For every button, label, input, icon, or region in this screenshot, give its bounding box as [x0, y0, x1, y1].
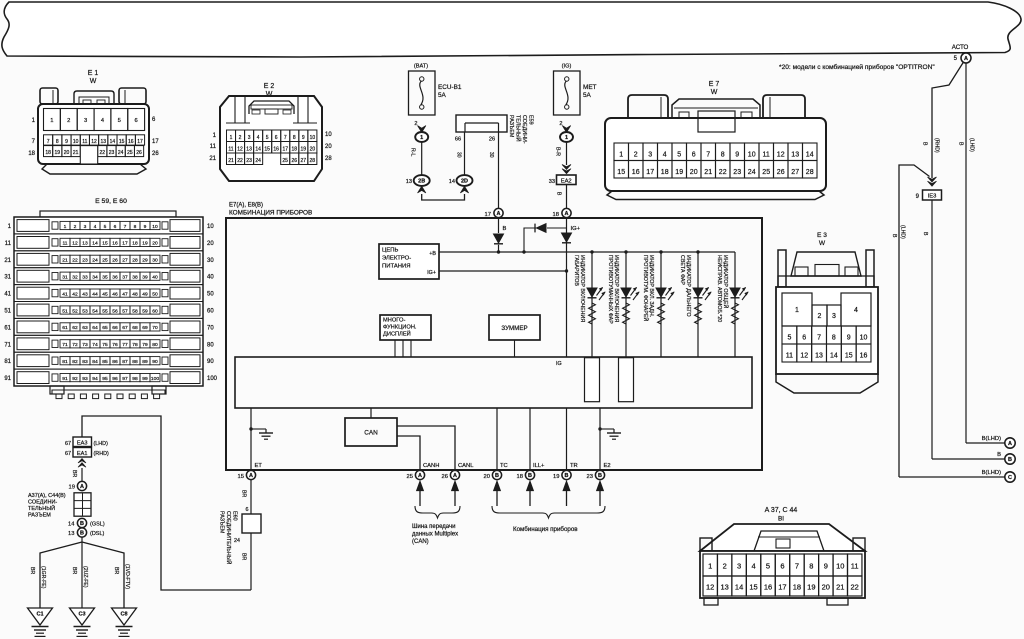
svg-text:20: 20: [325, 144, 332, 150]
connector A37 pins: [703, 554, 717, 576]
svg-text:2: 2: [74, 224, 77, 230]
svg-text:5A: 5A: [438, 92, 447, 99]
svg-text:20: 20: [152, 241, 158, 247]
arrows into EA3: [78, 459, 86, 464]
connector E59 bottom tabs: [50, 386, 64, 394]
svg-text:СВЕТА ФАР: СВЕТА ФАР: [679, 255, 685, 285]
svg-text:IE3: IE3: [928, 194, 937, 200]
svg-text:7: 7: [706, 152, 710, 159]
terminal circle A top: [961, 53, 971, 63]
svg-text:98: 98: [132, 376, 138, 382]
svg-text:C3: C3: [78, 612, 85, 618]
svg-text:17: 17: [282, 146, 288, 152]
svg-text:1: 1: [50, 118, 53, 124]
svg-text:17: 17: [122, 241, 128, 247]
svg-text:C8: C8: [120, 612, 127, 618]
svg-text:1: 1: [64, 224, 67, 230]
wire BR to joint: [81, 468, 83, 481]
svg-text:КОМБИНАЦИЯ ПРИБОРОВ: КОМБИНАЦИЯ ПРИБОРОВ: [229, 210, 312, 217]
svg-text:8: 8: [721, 152, 725, 159]
svg-text:R-L: R-L: [410, 148, 416, 156]
svg-text:27: 27: [300, 158, 306, 164]
fuse MET 5A: [554, 71, 581, 115]
combination meter box: [226, 218, 762, 470]
svg-text:25: 25: [102, 258, 108, 264]
arrows below CAN terminals: [416, 481, 423, 491]
svg-text:15: 15: [264, 146, 270, 152]
indicator LED column 1: [591, 252, 593, 357]
svg-text:61: 61: [4, 325, 11, 331]
svg-text:14: 14: [68, 522, 75, 528]
svg-text:68: 68: [132, 325, 138, 331]
svg-text:B(LHD): B(LHD): [982, 470, 1001, 476]
connector E1 pin row 1: [44, 109, 61, 131]
svg-text:B: B: [922, 232, 928, 236]
svg-text:74: 74: [92, 342, 98, 348]
svg-text:3: 3: [84, 224, 87, 230]
svg-text:ДИСПЛЕЙ: ДИСПЛЕЙ: [383, 330, 411, 338]
svg-text:6: 6: [135, 118, 138, 124]
svg-text:70: 70: [152, 325, 158, 331]
wire TR: [566, 408, 568, 470]
svg-text:12: 12: [706, 583, 714, 592]
svg-text:13: 13: [406, 179, 412, 185]
svg-text:21: 21: [228, 158, 234, 164]
svg-text:3: 3: [832, 313, 836, 320]
svg-text:13: 13: [246, 146, 252, 152]
svg-text:80: 80: [207, 342, 214, 348]
connector E2 pin row 2: [227, 142, 236, 154]
svg-text:BI: BI: [778, 516, 784, 523]
svg-text:3: 3: [737, 562, 741, 571]
svg-text:57: 57: [122, 308, 128, 314]
svg-text:12: 12: [800, 353, 808, 360]
svg-text:11: 11: [763, 152, 770, 159]
connector E59 shell: [14, 217, 203, 386]
arrow into connector 1: [418, 126, 426, 133]
diode on IG: [562, 233, 572, 242]
multi display box: [380, 315, 431, 340]
svg-text:11: 11: [62, 241, 67, 247]
torn page band across top: [2, 2, 1021, 57]
svg-text:20: 20: [822, 583, 830, 592]
svg-text:20: 20: [310, 146, 316, 152]
svg-text:10: 10: [152, 224, 158, 230]
svg-text:+B: +B: [429, 251, 436, 257]
svg-text:E 2: E 2: [264, 83, 275, 90]
svg-text:A: A: [418, 473, 422, 479]
svg-text:C: C: [1008, 475, 1012, 481]
connector E1 right ear: [119, 88, 146, 104]
svg-text:42: 42: [72, 291, 78, 297]
indicator LED column 4: [697, 252, 699, 357]
connector oval 2D: [457, 175, 473, 186]
svg-text:ИНДИКАТОР ОБЩЕЙ: ИНДИКАТОР ОБЩЕЙ: [722, 255, 730, 308]
svg-text:B: B: [922, 142, 928, 146]
joint connector E59 box: [456, 115, 507, 132]
connector E1 pin row 3: [44, 146, 53, 157]
indicator LED column 3: [660, 252, 662, 357]
svg-text:95: 95: [102, 376, 108, 382]
svg-text:5A: 5A: [583, 92, 592, 99]
svg-text:MET: MET: [583, 84, 597, 91]
svg-text:99: 99: [142, 376, 148, 382]
svg-text:B: B: [958, 142, 964, 146]
svg-text:14: 14: [255, 146, 261, 152]
svg-text:7: 7: [284, 135, 287, 141]
svg-text:41: 41: [62, 291, 68, 297]
svg-text:17: 17: [152, 139, 159, 145]
svg-text:27: 27: [122, 258, 128, 264]
svg-text:A 37, C 44: A 37, C 44: [765, 507, 798, 514]
svg-text:30: 30: [488, 152, 494, 158]
svg-text:A: A: [453, 473, 457, 479]
svg-text:7: 7: [47, 139, 50, 145]
wire B below IE3: [931, 200, 933, 459]
svg-text:97: 97: [122, 376, 128, 382]
svg-text:80: 80: [152, 342, 158, 348]
svg-text:96: 96: [112, 376, 118, 382]
svg-text:АСТО: АСТО: [952, 44, 969, 51]
svg-text:19: 19: [55, 150, 61, 156]
svg-text:B: B: [503, 226, 507, 232]
connector A37 shell body: [700, 551, 865, 598]
svg-text:30: 30: [456, 152, 462, 158]
svg-text:24: 24: [92, 258, 98, 264]
svg-text:17: 17: [137, 139, 143, 145]
svg-text:91: 91: [62, 376, 68, 382]
svg-text:7: 7: [795, 562, 799, 571]
svg-text:ПИТАНИЯ: ПИТАНИЯ: [382, 264, 411, 270]
svg-text:E 1: E 1: [88, 70, 99, 77]
svg-text:1: 1: [708, 562, 712, 571]
svg-text:28: 28: [132, 258, 138, 264]
svg-text:НЕИСПРАВ. АВТОМОБ.*20: НЕИСПРАВ. АВТОМОБ.*20: [716, 255, 722, 322]
connector oval 1 MET: [560, 132, 573, 142]
svg-text:13: 13: [82, 241, 88, 247]
svg-text:5: 5: [766, 562, 770, 571]
svg-text:8: 8: [56, 139, 59, 145]
svg-text:4: 4: [94, 224, 97, 230]
svg-text:Е60: Е60: [232, 511, 238, 521]
connector E3 posts: [778, 250, 786, 287]
connector E7 center latch: [672, 99, 760, 118]
svg-text:9: 9: [144, 224, 147, 230]
brace combination meter: [492, 506, 605, 518]
inner unit box: [235, 357, 752, 408]
wire CANH: [397, 436, 420, 470]
svg-text:A: A: [249, 473, 253, 479]
connector E2 shell: [220, 96, 322, 181]
svg-text:B(LHD): B(LHD): [982, 436, 1001, 442]
svg-text:14: 14: [806, 152, 814, 159]
svg-text:CANH: CANH: [423, 463, 439, 469]
svg-text:2: 2: [818, 313, 822, 320]
svg-text:(LHD): (LHD): [94, 441, 109, 447]
connector E2 right ear channel: [293, 122, 317, 124]
svg-text:BR: BR: [71, 567, 77, 574]
svg-text:49: 49: [142, 291, 148, 297]
svg-text:15: 15: [845, 353, 853, 360]
svg-text:23: 23: [82, 258, 88, 264]
svg-text:14: 14: [110, 139, 116, 145]
svg-text:23: 23: [587, 474, 593, 480]
svg-text:2: 2: [559, 121, 562, 127]
svg-text:84: 84: [92, 359, 98, 365]
svg-text:60: 60: [207, 309, 214, 315]
svg-text:15: 15: [119, 139, 125, 145]
svg-text:25: 25: [127, 150, 133, 156]
connector oval 1: [415, 132, 428, 142]
svg-text:32: 32: [72, 275, 78, 281]
svg-text:ЦЕПЬ: ЦЕПЬ: [382, 248, 399, 254]
svg-text:12: 12: [91, 139, 97, 145]
connector E1 shell: [38, 104, 149, 164]
connector E59 top bar: [40, 211, 176, 217]
buzzer box: [489, 315, 540, 340]
svg-text:СОЕДИНИ-: СОЕДИНИ-: [521, 115, 527, 144]
svg-text:24: 24: [748, 169, 756, 176]
svg-text:B: B: [565, 473, 569, 479]
svg-text:33: 33: [549, 179, 555, 185]
svg-text:РАЗЪЕМ: РАЗЪЕМ: [219, 511, 225, 534]
svg-text:27: 27: [791, 169, 799, 176]
arrows below meter terminals: [493, 481, 500, 491]
svg-text:26: 26: [442, 474, 448, 480]
terminal C bottom right: [1005, 472, 1015, 482]
svg-text:16: 16: [764, 583, 772, 592]
svg-text:40: 40: [207, 275, 214, 281]
svg-text:11: 11: [228, 146, 233, 152]
svg-text:СОЕДИНИ-: СОЕДИНИ-: [28, 500, 57, 506]
svg-text:47: 47: [122, 291, 128, 297]
svg-text:26: 26: [112, 258, 118, 264]
svg-text:W: W: [90, 78, 97, 85]
connector E59 rows: [14, 217, 203, 234]
svg-text:52: 52: [72, 308, 78, 314]
svg-text:5: 5: [104, 224, 107, 230]
svg-text:11: 11: [5, 241, 12, 247]
svg-text:81: 81: [4, 359, 11, 365]
svg-text:23: 23: [109, 150, 115, 156]
svg-text:8: 8: [832, 335, 836, 342]
svg-text:89: 89: [142, 359, 148, 365]
svg-text:12: 12: [237, 146, 243, 152]
svg-text:55: 55: [102, 308, 108, 314]
svg-text:1: 1: [420, 135, 423, 141]
svg-text:67: 67: [65, 441, 71, 447]
wire joint E59 to terminal 17: [498, 123, 500, 208]
svg-text:26: 26: [489, 137, 495, 143]
svg-text:(RHD): (RHD): [94, 451, 109, 457]
svg-text:2: 2: [67, 118, 70, 124]
buzzer stub: [514, 340, 516, 357]
svg-text:62: 62: [72, 325, 78, 331]
svg-text:EA1: EA1: [77, 451, 88, 457]
svg-text:18: 18: [28, 151, 35, 157]
svg-text:21: 21: [73, 150, 79, 156]
svg-text:B: B: [997, 452, 1001, 458]
svg-text:13: 13: [720, 583, 728, 592]
svg-text:40: 40: [152, 275, 158, 281]
svg-text:6: 6: [692, 152, 696, 159]
svg-text:Комбинация приборов: Комбинация приборов: [513, 526, 578, 533]
connector E1 foot: [42, 164, 146, 174]
arrow into connector 1: [562, 126, 570, 133]
wire R-L: [421, 142, 423, 175]
svg-text:19: 19: [142, 241, 148, 247]
svg-text:22: 22: [237, 158, 243, 164]
svg-text:29: 29: [142, 258, 148, 264]
multi display stubs: [394, 340, 396, 357]
svg-text:BR: BR: [29, 567, 35, 574]
svg-text:E 7: E 7: [709, 81, 720, 88]
svg-text:45: 45: [102, 291, 108, 297]
svg-text:Шина передачи: Шина передачи: [412, 524, 455, 530]
svg-text:16: 16: [273, 146, 279, 152]
ground C8: [112, 608, 137, 625]
svg-text:11: 11: [82, 139, 87, 145]
svg-text:9: 9: [302, 135, 305, 141]
svg-text:22: 22: [100, 150, 106, 156]
wire EA2 to terminal 18: [566, 185, 568, 209]
svg-text:18: 18: [132, 241, 138, 247]
svg-text:14: 14: [92, 241, 98, 247]
svg-text:(1GR-FE): (1GR-FE): [40, 566, 46, 589]
svg-text:26: 26: [777, 169, 785, 176]
connector E1 pin row 2: [44, 135, 53, 145]
svg-text:70: 70: [207, 325, 214, 331]
arrow into 2B: [418, 186, 426, 193]
svg-text:ЭЛЕКТРО-: ЭЛЕКТРО-: [382, 256, 411, 262]
svg-text:28: 28: [325, 156, 332, 162]
svg-text:ЗУММЕР: ЗУММЕР: [501, 325, 527, 332]
svg-text:91: 91: [4, 376, 11, 382]
svg-text:71: 71: [4, 342, 11, 348]
arrows into junction IE3: [928, 177, 937, 182]
CAN box: [370, 408, 372, 418]
svg-text:BR: BR: [241, 553, 247, 560]
svg-text:13: 13: [100, 139, 106, 145]
svg-text:63: 63: [82, 325, 88, 331]
wire B(LHD) left branch: [899, 165, 930, 477]
svg-text:76: 76: [112, 342, 118, 348]
connector A37 latch detail: [754, 531, 824, 551]
ground C1: [28, 608, 53, 625]
svg-text:67: 67: [122, 325, 128, 331]
svg-text:B: B: [80, 521, 84, 527]
connector E7 foot: [607, 191, 824, 200]
svg-text:20: 20: [690, 169, 698, 176]
svg-text:65: 65: [102, 325, 108, 331]
svg-text:75: 75: [102, 342, 108, 348]
svg-text:МНОГО-: МНОГО-: [383, 318, 405, 324]
terminal A bottom right: [1005, 438, 1015, 448]
wire IG from 18: [566, 218, 568, 357]
svg-text:21: 21: [4, 258, 11, 264]
svg-text:59: 59: [142, 308, 148, 314]
svg-text:16: 16: [128, 139, 134, 145]
svg-text:(LHD): (LHD): [969, 138, 975, 152]
svg-text:14: 14: [735, 583, 743, 592]
svg-text:21: 21: [62, 258, 68, 264]
wire BR from 15: [250, 480, 252, 514]
backup diode branch: [547, 227, 567, 229]
svg-text:1: 1: [565, 135, 568, 141]
connector A37 feet: [704, 598, 718, 605]
svg-text:11: 11: [210, 144, 217, 150]
svg-text:94: 94: [92, 376, 98, 382]
svg-text:ТЕЛЬНЫЙ: ТЕЛЬНЫЙ: [515, 115, 523, 142]
wire CANL: [397, 426, 455, 470]
svg-text:16: 16: [112, 241, 118, 247]
svg-text:25: 25: [762, 169, 770, 176]
svg-text:B: B: [80, 530, 84, 536]
svg-text:E2: E2: [604, 463, 611, 469]
svg-text:37: 37: [122, 275, 128, 281]
svg-text:A37(A), C44(B): A37(A), C44(B): [28, 493, 66, 499]
svg-text:22: 22: [719, 169, 727, 176]
svg-text:B: B: [528, 473, 532, 479]
svg-text:СОЕДИНИТЕЛЬНЫЙ: СОЕДИНИТЕЛЬНЫЙ: [225, 511, 233, 564]
svg-text:28: 28: [310, 158, 316, 164]
svg-text:85: 85: [102, 359, 108, 365]
wire B(LHD) from terminal A down right side: [965, 63, 967, 443]
svg-text:B: B: [598, 473, 602, 479]
wire BR below joint E60: [250, 533, 252, 590]
svg-text:(LHD): (LHD): [900, 225, 906, 239]
wire split to grounds: [81, 537, 83, 608]
svg-text:34: 34: [92, 275, 98, 281]
svg-text:3: 3: [648, 152, 652, 159]
svg-text:E 59, E 60: E 59, E 60: [95, 198, 127, 205]
svg-text:6: 6: [275, 135, 278, 141]
wire to terminal B bottom: [932, 458, 1005, 460]
svg-text:20: 20: [207, 241, 214, 247]
svg-text:E7(A), E8(B): E7(A), E8(B): [229, 203, 263, 209]
svg-text:58: 58: [132, 308, 138, 314]
svg-text:72: 72: [72, 342, 78, 348]
connector E7 pins: [614, 143, 629, 161]
svg-text:23: 23: [733, 169, 741, 176]
svg-text:24: 24: [234, 538, 240, 544]
svg-text:TC: TC: [500, 463, 508, 469]
svg-text:10: 10: [207, 224, 214, 230]
svg-text:6: 6: [114, 224, 117, 230]
svg-text:87: 87: [122, 359, 128, 365]
svg-text:7: 7: [817, 335, 821, 342]
svg-text:W: W: [711, 89, 718, 96]
wire 2D to joint E59: [464, 132, 466, 175]
svg-text:30: 30: [152, 258, 158, 264]
svg-text:15: 15: [238, 474, 244, 480]
svg-text:2: 2: [239, 135, 242, 141]
svg-text:17: 17: [646, 169, 654, 176]
svg-text:B: B: [1008, 457, 1012, 463]
connector E2 pin row 1: [227, 130, 236, 142]
svg-text:IG+: IG+: [571, 226, 581, 232]
svg-text:39: 39: [142, 275, 148, 281]
connector E1 left ear: [40, 88, 58, 104]
svg-text:(BAT): (BAT): [414, 64, 428, 70]
svg-text:11: 11: [851, 562, 859, 571]
svg-text:51: 51: [4, 309, 11, 315]
svg-text:6: 6: [246, 507, 249, 513]
svg-text:2B: 2B: [418, 179, 425, 185]
arrow into 2D: [460, 186, 468, 193]
svg-text:64: 64: [92, 325, 98, 331]
svg-text:18: 18: [45, 150, 51, 156]
